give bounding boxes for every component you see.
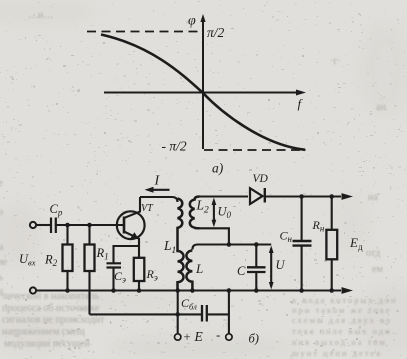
svg-text:схемы для двух во: схемы для двух во [292, 315, 392, 325]
phi axis (vertical) [202, 18, 204, 149]
input terminal bottom [30, 287, 36, 293]
transistor VT emitter [124, 232, 139, 258]
wire: Cp to transistor base [56, 224, 124, 226]
capacitor Cp [51, 218, 56, 234]
svg-text:сь: сь [0, 272, 3, 283]
svg-text:U: U [276, 258, 286, 272]
svg-text:ния выход на том: ния выход на том [292, 337, 387, 347]
output arrow bottom [342, 287, 354, 294]
current I arrow [152, 189, 170, 191]
transistor VT base bar [123, 217, 126, 234]
svg-text:π/2: π/2 [207, 25, 225, 40]
svg-text:C: C [237, 264, 246, 278]
svg-text:ра: ра [0, 242, 4, 253]
svg-text:L: L [195, 261, 203, 276]
svg-text:х вода которых дон: х вода которых дон [292, 295, 398, 305]
capacitor C [255, 245, 257, 268]
phase curve [101, 35, 305, 150]
wire: top input to Cp [36, 224, 51, 226]
rail junction nodes [65, 288, 70, 293]
resistor R2 [66, 225, 68, 245]
svg-text:на: на [368, 192, 378, 203]
svg-text:ем: ем [372, 264, 383, 275]
capacitor C3 [107, 263, 122, 267]
svg-text:…и…: …и… [28, 10, 53, 21]
svg-text:- π/2: - π/2 [162, 139, 187, 154]
wire: +E lead [177, 291, 179, 334]
transistor VT emitter arrow [130, 232, 138, 239]
svg-text:процесса об источнике: процесса об источнике [2, 303, 100, 314]
svg-text:ние: ние [0, 257, 8, 268]
svg-text:VT: VT [141, 203, 154, 214]
svg-text:·г·: ·г· [330, 56, 341, 67]
diode VD [250, 188, 263, 204]
node R1 top [87, 223, 92, 228]
terminal -E [226, 334, 232, 340]
node Cbl branch junction [175, 312, 180, 317]
svg-text:тока поле вых одн: тока поле вых одн [292, 326, 392, 336]
transistor VT circle [117, 211, 145, 239]
node Rn top [329, 194, 334, 199]
wire: L2 top to diode [200, 195, 249, 197]
output arrow top [342, 193, 354, 200]
node tap junction [227, 242, 232, 247]
svg-text:отд: отд [366, 248, 380, 259]
dashed level +pi/2 [87, 31, 203, 33]
input terminal top [30, 222, 36, 228]
svg-text:+: + [184, 330, 191, 344]
svg-text:при таком же токе: при таком же токе [292, 305, 392, 315]
inductor L2 [190, 197, 200, 229]
resistor R3 (emitter) [134, 258, 145, 281]
wire: L2 bottom tap [200, 228, 229, 244]
wire: -E lead [228, 291, 230, 334]
wire: tank tap horizontal [192, 245, 271, 250]
svg-text:-: - [216, 327, 220, 342]
capacitor Cbl [202, 305, 207, 322]
wire: diode to output top with junctions [264, 195, 341, 197]
svg-text:лической в накопитель: лической в накопитель [2, 291, 100, 302]
resistor Rn [331, 197, 333, 230]
f axis (horizontal) [104, 92, 296, 94]
U measurement arrow [270, 249, 272, 287]
resistor R1 [88, 225, 90, 245]
svg-text:VD: VD [253, 173, 269, 185]
svg-text:б): б) [249, 332, 259, 346]
svg-text:но: но [0, 207, 3, 218]
svg-text:а): а) [212, 161, 224, 176]
node Cn top [299, 194, 304, 199]
wire: emitter to C3 branch [114, 246, 140, 263]
wire: Cbl branch [90, 313, 229, 315]
U0 measurement arrow [213, 201, 215, 224]
transistor VT collector [124, 197, 140, 218]
svg-text:φ: φ [188, 14, 196, 29]
inductor L [186, 251, 192, 291]
capacitor Cn [301, 197, 303, 241]
wire: collector to L1 [140, 197, 178, 202]
inductor L1 [178, 199, 184, 291]
bottom rail wire [36, 289, 341, 291]
svg-text:шунт цепи детек: шунт цепи детек [292, 348, 382, 358]
terminal +E [175, 334, 181, 340]
svg-text:сигналов не происходит: сигналов не происходит [2, 315, 105, 326]
dashed level -pi/2 [204, 149, 306, 151]
node R2 top [65, 223, 70, 228]
svg-text:напряжением смещ: напряжением смещ [2, 327, 85, 338]
svg-text:E: E [194, 329, 204, 344]
svg-text:ан: ан [376, 102, 386, 113]
svg-text:модуляции несущей: модуляции несущей [4, 339, 90, 350]
